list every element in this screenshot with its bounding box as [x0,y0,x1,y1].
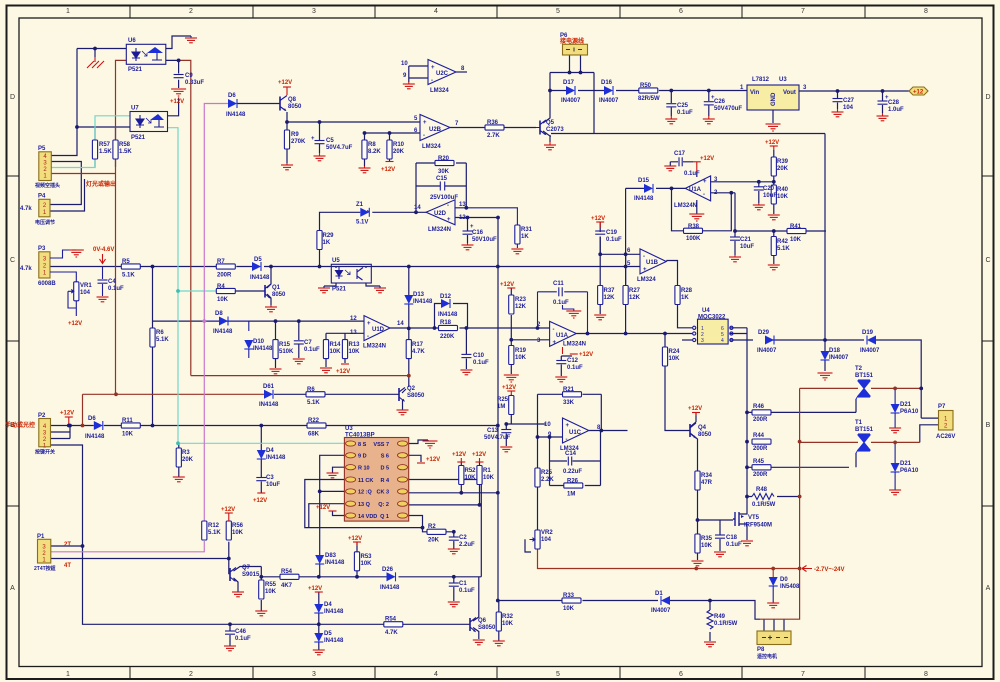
resistor R36 [485,125,504,130]
svg-text:10: 10 [544,422,551,428]
svg-text:7: 7 [801,8,805,15]
diode D61 [264,390,273,399]
svg-text:4.7K: 4.7K [412,349,425,355]
svg-text:R52: R52 [465,468,477,474]
svg-text:50V4.7uF: 50V4.7uF [326,145,353,151]
svg-text:D: D [985,94,990,101]
svg-text:D15: D15 [638,178,650,184]
svg-text:82R/5W: 82R/5W [638,96,660,102]
diode D15 [644,184,653,193]
svg-text:14 VDD: 14 VDD [358,514,377,520]
svg-text:C: C [985,257,990,264]
op-amp U1A2 [550,321,577,346]
wire C14 R26 loops [550,431,601,486]
wire U6 out to ground [166,36,191,49]
wire U2B output R36 to Q5 [450,127,536,129]
power +12V Q4 [692,413,700,417]
wire U3 pin10 gnd [333,467,345,473]
wire U1C output [589,430,628,432]
svg-text:P6A10: P6A10 [900,468,919,474]
colored net wires [51,60,921,619]
svg-text:D1: D1 [655,591,663,597]
svg-text:S 6: S 6 [381,454,389,460]
svg-text:3: 3 [701,338,704,344]
svg-text:30K: 30K [438,169,450,175]
capacitor C19 [595,231,605,234]
svg-text:+: + [703,179,707,185]
resistor R6h [306,392,325,397]
svg-text:U3: U3 [345,426,353,432]
ground D0 [767,603,779,608]
svg-text:LM324N: LM324N [674,203,697,209]
resistor R28 [675,286,680,305]
wire Q1 collector emitter [267,267,271,306]
svg-text:R 10: R 10 [358,466,370,472]
wire U3 pin6 12v [409,455,421,462]
svg-text:+12V: +12V [336,369,350,375]
wire maroon U6 to bottom rail [83,60,265,425]
connector P8 [757,631,791,645]
net arrow -2.7V~-24V [802,566,812,572]
wire R19 R25 column [506,365,546,424]
svg-text:C17: C17 [674,151,686,157]
ground C12 [555,377,567,382]
svg-text:R23: R23 [515,297,527,303]
svg-text:-: - [643,254,645,260]
svg-text:电压调节: 电压调节 [35,219,55,226]
svg-text:-: - [566,437,568,443]
svg-text:R54: R54 [385,617,397,623]
resistor R44 [752,439,771,444]
ground R9 [281,163,293,170]
svg-text:10uF: 10uF [763,193,777,199]
components group A top-left [20,33,928,226]
op-amp U2C [428,60,456,85]
svg-text:Q1: Q1 [272,285,281,291]
wire dark red bus VR2 to arrow [538,549,800,569]
svg-text:-: - [367,334,369,340]
svg-text:IN4148: IN4148 [325,560,345,566]
resistor R29 [317,231,322,250]
svg-text:4.7k: 4.7k [20,206,32,212]
svg-text:4: 4 [721,338,724,344]
wire U5 pins [324,267,380,289]
wire D4 D5 chain bottom [318,592,320,650]
svg-text:C19: C19 [606,230,618,236]
svg-text:灯光或输出: 灯光或输出 [86,180,116,188]
ground R32 [493,641,505,646]
svg-text:C21: C21 [740,237,752,243]
svg-text:1: 1 [66,671,70,678]
svg-text:P5: P5 [38,146,46,152]
opto-coupler U5 [331,264,371,283]
transistor Q5 [539,121,541,135]
ground C26 [703,116,715,124]
resistor R11 [121,423,140,428]
svg-text:5.1K: 5.1K [777,246,790,252]
svg-text:IN5408: IN5408 [780,584,800,590]
transistor Q8 [279,97,281,111]
svg-text:LM324: LM324 [430,88,449,94]
svg-text:P6A10: P6A10 [900,409,919,415]
wire R23 column top [510,288,512,295]
svg-text:R53: R53 [361,554,373,560]
svg-text:D10: D10 [253,339,265,345]
svg-text:5: 5 [556,8,560,15]
svg-text:+12V: +12V [579,352,593,358]
svg-text:8050: 8050 [272,292,286,298]
capacitor C11 loop [538,292,588,334]
ground C10 [460,370,472,375]
resistor R14 [323,340,328,359]
resistor R23 [509,295,514,314]
capacitor C4 [102,267,104,280]
resistor R34 [695,471,700,490]
wire U1D output R18 loop [390,304,550,329]
power bars R19 [504,375,519,382]
svg-text:U6: U6 [128,38,136,44]
resistor R52 [459,466,464,485]
diode D19 [867,336,876,345]
svg-text:+12V: +12V [316,505,330,511]
svg-text:视频空插头: 视频空插头 [35,182,60,189]
svg-text:S9015: S9015 [242,572,260,578]
resistor R3 [176,448,181,467]
resistor R53 [354,552,359,571]
svg-text:270K: 270K [291,139,306,145]
resistor R7 [216,264,235,269]
svg-text:12 :Q: 12 :Q [358,490,372,496]
svg-text:L7812: L7812 [752,77,770,83]
ground C21 [729,255,741,262]
ground U3b pin10 [327,473,339,478]
svg-text:C: C [10,257,15,264]
wire R20 C15 feedback loop [416,163,466,212]
wire U1A mirrored output D15 [626,188,686,285]
svg-text:R38: R38 [688,224,700,230]
wire P8 pins [764,619,784,631]
svg-text:R29: R29 [323,233,335,239]
connector P7 [939,411,954,431]
svg-text:R50: R50 [640,83,652,89]
capacitor C46 [225,631,235,634]
resistor R17 [406,340,411,359]
capacitor C13 [501,430,511,433]
svg-text:10K: 10K [790,237,802,243]
ground C16 [462,243,474,250]
svg-text:IN4148: IN4148 [634,196,654,202]
svg-text:IN4148: IN4148 [266,455,286,461]
op-amp U2D mirrored [426,200,455,225]
wire D4a C3 column [260,426,262,494]
capacitor C21 [730,237,740,240]
ground C2 [448,549,460,554]
wire R41 R42 C21 [735,193,826,264]
svg-text:8: 8 [924,671,928,678]
svg-text:+12V: +12V [426,457,440,463]
opto-coupler U7 [130,112,168,132]
svg-text:R8: R8 [368,142,376,148]
svg-text:33K: 33K [563,400,575,406]
svg-text:0.1uF: 0.1uF [726,542,742,548]
resistor R38 [684,228,703,233]
svg-text:1K: 1K [681,295,689,301]
resistor R41 [787,228,806,233]
ground C25 [665,116,677,124]
svg-text:D5: D5 [324,631,332,637]
svg-text:+12V: +12V [278,80,292,86]
resistor R37 [598,286,603,305]
svg-text:10: 10 [401,61,408,67]
ground R40 [768,215,780,220]
svg-text:8.2K: 8.2K [368,149,381,155]
ground Q1 [265,305,277,312]
ground D21 lower [889,490,901,495]
svg-text:20K: 20K [182,457,194,463]
svg-text:AC26V: AC26V [936,434,955,440]
components group C center [270,208,693,549]
svg-text:7: 7 [801,671,805,678]
svg-text:T2: T2 [855,366,863,372]
svg-text:R6: R6 [156,330,164,336]
svg-text:U7: U7 [131,106,139,112]
wire R27 chain [625,254,627,333]
ground U1A2 top [563,305,574,311]
ground R49 [704,642,716,647]
resistor R45 [752,465,771,470]
svg-text:P521: P521 [128,67,143,73]
ground U5 right [374,288,386,293]
svg-text:P8: P8 [757,647,765,653]
wire R32 [498,601,520,642]
diode D21 lower [894,442,896,463]
resistor R40 [771,185,776,204]
wire R8 R10 to U2B pin6 [365,133,421,166]
ground C20 [753,203,765,210]
capacitor C12 [556,361,566,364]
ground U3 reg [766,124,781,131]
svg-text:-: - [553,327,555,333]
svg-text:P2: P2 [38,413,46,419]
svg-text:IN4148: IN4148 [324,638,344,644]
wire R39 R40 node to U1A plus input [711,150,774,214]
resistor R5 [121,264,140,269]
power +12V R56 [225,513,233,521]
power +12V pin6 [417,462,425,464]
resistor R19 [509,346,514,365]
op-amp U1B [640,249,666,274]
resistor R20 [435,160,454,165]
svg-text:R31: R31 [521,227,533,233]
svg-text:220K: 220K [440,334,455,340]
svg-text:A: A [986,585,991,592]
svg-text:+12V: +12V [500,282,514,288]
op-amp U2B [420,115,450,141]
wire R49 stub [709,601,711,642]
svg-text:C7: C7 [304,340,312,346]
svg-text:D18: D18 [829,348,841,354]
power +12V Q8 [283,87,291,95]
svg-text:5.1K: 5.1K [307,400,320,406]
svg-text:R22: R22 [308,418,320,424]
svg-text:D6: D6 [228,93,236,99]
svg-text:5.1K: 5.1K [156,337,169,343]
svg-text:C2: C2 [459,535,467,541]
svg-text:接电源线: 接电源线 [559,37,584,45]
svg-text:IN4148: IN4148 [324,609,344,615]
capacitor C15 [440,182,444,191]
connector P2 [39,419,51,447]
resistor R49 zigzag [707,610,713,629]
svg-text:200R: 200R [753,417,768,423]
resistor R13 [342,340,347,359]
svg-text:10K: 10K [122,432,134,438]
svg-text:0.1uF: 0.1uF [108,286,124,292]
diode D12 [441,299,450,308]
svg-text:B: B [986,422,991,429]
svg-text:0.1uF: 0.1uF [459,588,475,594]
capacitor C5 [315,141,325,144]
svg-text:200R: 200R [753,446,768,452]
wire C13 stub [505,424,507,446]
diode D6b [94,421,103,430]
svg-text:10K: 10K [701,543,713,549]
wire C1 stub [453,577,455,601]
svg-text:Q7: Q7 [242,565,251,571]
svg-text:6: 6 [679,8,683,15]
svg-text:6008B: 6008B [38,281,56,287]
svg-text:VT5: VT5 [748,515,760,521]
svg-text:Q5: Q5 [546,120,555,126]
wire Q8 node to U2B pin5 [237,104,420,164]
svg-text:BT151: BT151 [855,373,874,379]
svg-text:U1D: U1D [372,327,385,333]
resistor R50 [639,88,658,93]
svg-text:+: + [423,120,427,126]
svg-text:R37: R37 [604,288,616,294]
svg-text:+12V: +12V [308,586,322,592]
svg-text:R54: R54 [281,569,293,575]
svg-text:T1: T1 [855,420,863,426]
svg-text:-2.7V~-24V: -2.7V~-24V [814,567,845,573]
wire R15 C7 tops [276,321,299,368]
svg-text:P7: P7 [938,404,946,410]
ground C5 [314,153,326,161]
op-amp U1C [563,418,589,443]
svg-text:+12V: +12V [60,411,74,417]
wire R48 VT5 drain [747,467,800,510]
ground D21 upper [889,428,901,433]
resistor R2 [427,529,446,534]
svg-text:R7: R7 [217,259,225,265]
mosfet VT5 [733,512,739,526]
wire D83 bottom [319,565,321,577]
svg-text:C15: C15 [436,176,448,182]
svg-text:0.33uF: 0.33uF [185,80,204,86]
svg-text:-: - [423,133,425,139]
svg-text:R26: R26 [567,479,579,485]
svg-text:C16: C16 [472,230,484,236]
ground Q6 [473,640,485,645]
diode D4a [257,450,266,459]
diode D8 [219,317,228,326]
svg-text:4.7K: 4.7K [385,630,398,636]
svg-text:C5: C5 [326,138,334,144]
ground R3 [173,477,185,482]
resistor R48 zigzag [752,494,774,500]
resistor R21 [563,392,582,397]
svg-text:1M: 1M [497,404,505,410]
wire P1 pin3 [51,545,83,547]
wire bottom R33 D1 line [520,601,760,620]
svg-text:+: + [470,224,474,230]
svg-text:13: 13 [350,330,357,336]
wire U3 pin 13Q [309,504,345,528]
svg-text:R3: R3 [182,450,190,456]
svg-text:10K: 10K [265,589,277,595]
resistor R46 [752,410,771,415]
wire R45 row [747,453,856,467]
wire P3 pin1 VR1 [50,272,76,282]
ground R42 [768,265,780,270]
svg-text:D26: D26 [382,567,394,573]
svg-text:TC4013BP: TC4013BP [345,433,375,439]
svg-text:P1: P1 [37,534,45,540]
power +12V R10 [386,161,394,163]
svg-text:10K: 10K [361,561,373,567]
wire R24 to Q4 base [665,334,690,431]
svg-text:12K: 12K [629,295,641,301]
capacitor C16 [463,231,473,234]
diode D17 [566,86,575,95]
svg-text:GND: GND [771,92,777,106]
svg-text:4.7k: 4.7k [20,266,32,272]
svg-text:U1B: U1B [646,260,659,266]
power +12V R53 [353,542,361,546]
svg-text:R17: R17 [412,342,424,348]
svg-text:D19: D19 [862,330,874,336]
transistor Q2 [398,388,400,401]
ground R8 [359,166,371,173]
svg-text:LM324N: LM324N [363,344,386,350]
power symbol +12V battery [171,89,186,96]
svg-text:R1: R1 [483,468,491,474]
wire P1 pin1 bus [51,542,229,575]
svg-text:遥控电机: 遥控电机 [757,653,777,660]
svg-text:2.7K: 2.7K [487,133,500,139]
svg-text:U1A: U1A [689,187,702,193]
svg-text:1M: 1M [567,492,575,498]
svg-text:R34: R34 [701,473,713,479]
svg-text:D: D [10,94,15,101]
wire D18 stub [824,340,826,371]
svg-text:R24: R24 [669,349,681,355]
wire maroon C9 node down right rail [179,60,409,375]
svg-text:10uF: 10uF [740,244,754,250]
svg-text:LM324: LM324 [422,144,441,150]
svg-text:20K: 20K [777,166,789,172]
svg-text:U3: U3 [779,77,787,83]
wire cyan U7 down long [168,128,345,444]
svg-text:20K: 20K [428,538,440,544]
svg-text:R4: R4 [217,284,225,290]
ground R14 [320,368,332,373]
wire magenta R12 to P1 [51,541,205,552]
ground C27 [832,109,844,117]
svg-text:4T: 4T [64,563,71,569]
svg-text:LM324N: LM324N [428,227,451,233]
power +12V D4 [315,591,323,593]
